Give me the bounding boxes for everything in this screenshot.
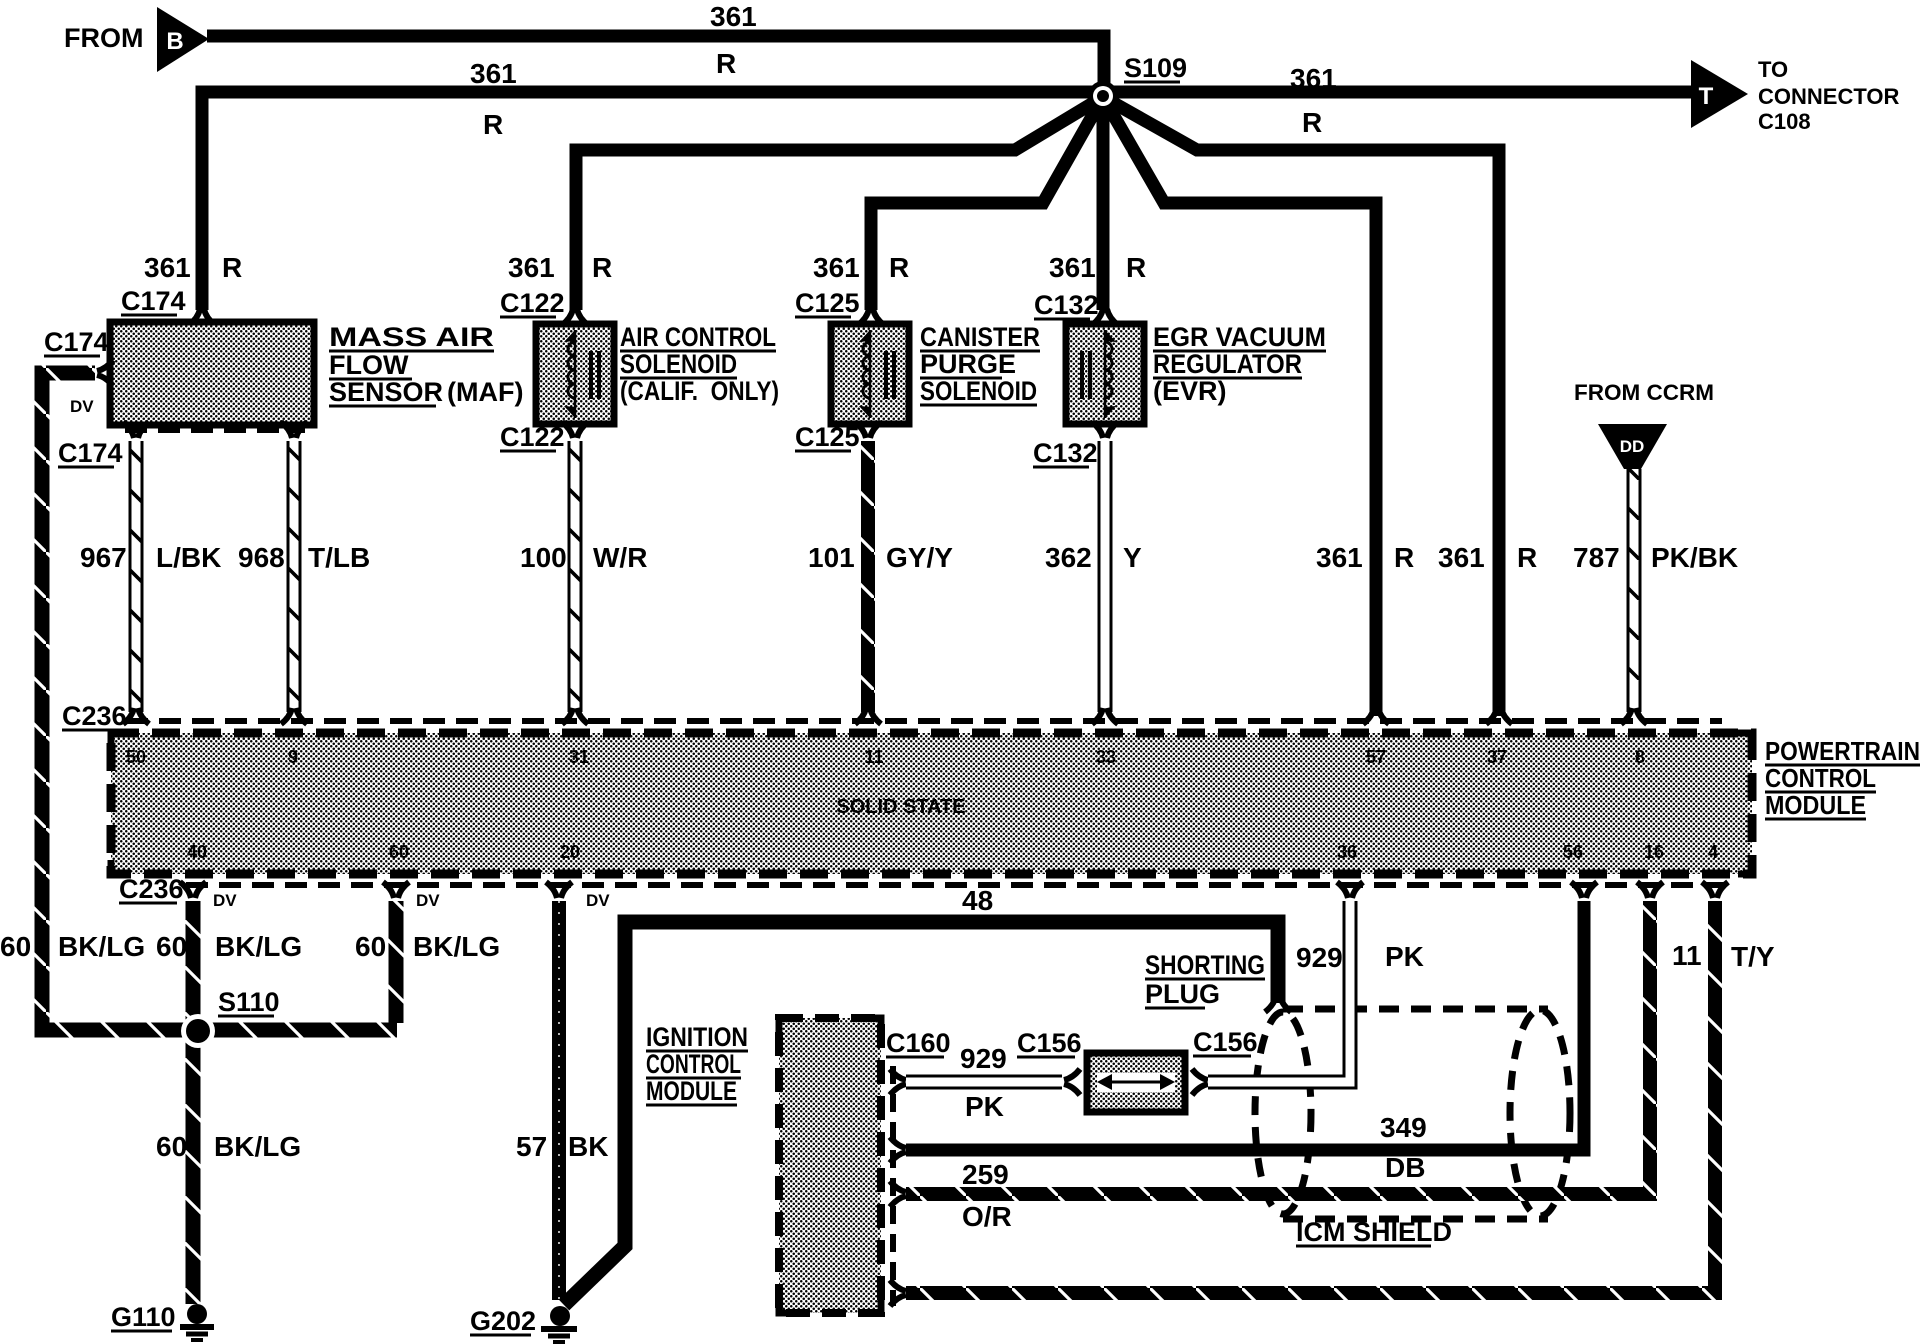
label R (pin 37 wire)	[1517, 542, 1537, 573]
label IGNITION CONTROL MODULE	[646, 1022, 748, 1106]
air control solenoid box C122	[536, 324, 614, 424]
label SHORTING PLUG	[1145, 950, 1265, 1009]
wire 57 BK (pin 20 to G202)	[552, 901, 566, 1300]
label 929 (C160 wire)	[960, 1043, 1007, 1074]
svg-text:SOLID STATE: SOLID STATE	[836, 796, 965, 818]
svg-text:CONNECTOR: CONNECTOR	[1758, 84, 1899, 109]
svg-text:R: R	[1126, 252, 1146, 283]
svg-text:CONTROL: CONTROL	[1765, 763, 1876, 793]
svg-text:R: R	[483, 109, 503, 140]
connector C174 pin (361 wire at MAF top)	[189, 309, 215, 325]
svg-text:T: T	[1699, 83, 1714, 110]
label C236 (top, left)	[62, 701, 127, 731]
wire 362 Y	[1098, 441, 1113, 712]
wire 361 R branch to PCM pin 57	[1103, 97, 1376, 716]
label 57	[516, 1131, 547, 1162]
svg-text:929: 929	[960, 1043, 1007, 1074]
svg-text:57: 57	[516, 1131, 547, 1162]
svg-text:BK/LG: BK/LG	[215, 931, 302, 962]
label R (right of S109)	[1302, 107, 1322, 138]
label 968	[238, 542, 285, 573]
label 361 (C132 drop)	[1049, 252, 1096, 283]
label T/Y	[1731, 941, 1775, 972]
label 100	[520, 542, 567, 573]
svg-text:EGR VACUUM: EGR VACUUM	[1153, 322, 1326, 352]
connector C236 pin (wire 929 top)	[1337, 882, 1363, 898]
svg-text:361: 361	[710, 1, 757, 32]
svg-text:R: R	[889, 252, 909, 283]
wire DV from MAF to S110	[42, 373, 397, 1030]
svg-text:DB: DB	[1385, 1152, 1425, 1183]
svg-text:16: 16	[1644, 842, 1664, 862]
label G202	[470, 1306, 536, 1336]
svg-text:AIR CONTROL: AIR CONTROL	[620, 322, 776, 352]
svg-text:C122: C122	[500, 288, 565, 318]
svg-text:37: 37	[1487, 747, 1507, 767]
connector C174 pin (DV wire at MAF left)	[97, 360, 113, 386]
label BK/LG (pin 60 wire)	[413, 931, 500, 962]
svg-text:B: B	[166, 28, 183, 55]
connector C125 pin (wire 101 top)	[855, 422, 881, 438]
svg-text:60: 60	[156, 931, 187, 962]
label PK (C160 wire)	[965, 1091, 1004, 1122]
svg-text:57: 57	[1366, 747, 1386, 767]
svg-text:361: 361	[1049, 252, 1096, 283]
label MASS AIR FLOW SENSOR (MAF)	[329, 322, 523, 407]
connector C236 pin (wire 349 top)	[1571, 882, 1597, 898]
label DV (pin 40 wire)	[213, 891, 237, 910]
label R (C125 drop)	[889, 252, 909, 283]
connector C236 pin (wire 100 bottom)	[562, 708, 588, 724]
label TO CONNECTOR C108	[1758, 57, 1899, 134]
connector C236 pin (lower wire 1)	[180, 882, 206, 898]
label 361 (pin 57 wire)	[1316, 542, 1363, 573]
svg-text:MODULE: MODULE	[1765, 790, 1866, 820]
label FROM CCRM	[1574, 380, 1714, 405]
MAF sensor box	[110, 322, 314, 425]
label 349	[1380, 1112, 1427, 1143]
svg-text:101: 101	[808, 542, 855, 573]
svg-text:W/R: W/R	[593, 542, 647, 573]
svg-text:361: 361	[1438, 542, 1485, 573]
label C132 (bottom connector)	[1033, 438, 1098, 468]
connector C156 pin (right)	[1192, 1069, 1208, 1095]
svg-text:C156: C156	[1017, 1028, 1082, 1058]
label EGR VACUUM REGULATOR (EVR)	[1153, 322, 1326, 406]
svg-text:40: 40	[187, 842, 207, 862]
label BK/LG (left wire)	[58, 931, 145, 962]
label PK/BK	[1651, 542, 1738, 573]
svg-text:PURGE: PURGE	[920, 349, 1016, 379]
svg-text:967: 967	[80, 542, 127, 573]
svg-text:DV: DV	[586, 891, 610, 910]
splice S110	[181, 1014, 215, 1048]
svg-text:GY/Y: GY/Y	[886, 542, 953, 573]
label C125 (top connector)	[795, 288, 860, 318]
label C122 (bottom connector)	[500, 422, 565, 452]
svg-text:(CALIF. ONLY): (CALIF. ONLY)	[620, 376, 779, 406]
wire 929 PK (C160 to C156)	[906, 1075, 1062, 1090]
label C174 (bottom connector)	[58, 438, 123, 468]
svg-text:BK/LG: BK/LG	[413, 931, 500, 962]
svg-text:R: R	[1394, 542, 1414, 573]
connector C236 pin (lower wire 2)	[383, 882, 409, 898]
label 967	[80, 542, 127, 573]
label BK/LG (G110 wire)	[214, 1131, 301, 1162]
label C174 (left connector)	[44, 327, 109, 357]
connector C132 pin (361 wire top)	[1092, 309, 1118, 325]
connector C174 pin (wire 967 top)	[123, 422, 149, 438]
label R (pin 57 wire)	[1394, 542, 1414, 573]
svg-text:C125: C125	[795, 422, 860, 452]
label PK (pin 36 wire)	[1385, 941, 1424, 972]
connector C122 pin (wire 100 top)	[562, 422, 588, 438]
label DV (MAF left wire)	[70, 397, 94, 416]
connector C236 pin (wire 259 top)	[1637, 882, 1663, 898]
canister purge solenoid box C125	[831, 324, 909, 424]
label 11	[1672, 940, 1702, 971]
svg-text:50: 50	[126, 747, 146, 767]
label C125 (bottom connector)	[795, 422, 860, 452]
connector C236 pin (lower wire 3)	[546, 882, 572, 898]
arrow T (to connector C108)	[1691, 60, 1748, 128]
svg-text:S110: S110	[218, 987, 280, 1017]
wire 361 R branch to C132	[1097, 97, 1110, 310]
svg-text:C236: C236	[119, 874, 184, 904]
svg-text:O/R: O/R	[962, 1201, 1012, 1232]
svg-text:C108: C108	[1758, 109, 1811, 134]
wire 967 L/BK	[129, 441, 144, 712]
label R (C122 drop)	[592, 252, 612, 283]
svg-text:T/Y: T/Y	[1731, 941, 1775, 972]
ICM shield dashed cylinder	[1255, 1009, 1570, 1219]
ground G110	[180, 1304, 214, 1340]
svg-text:BK: BK	[568, 1131, 608, 1162]
label 60 (G110 wire)	[156, 1131, 187, 1162]
svg-text:MASS AIR: MASS AIR	[329, 322, 494, 352]
svg-text:361: 361	[1316, 542, 1363, 573]
svg-text:ICM SHIELD: ICM SHIELD	[1296, 1217, 1452, 1247]
svg-text:9: 9	[288, 747, 298, 767]
svg-text:349: 349	[1380, 1112, 1427, 1143]
svg-text:BK/LG: BK/LG	[58, 931, 145, 962]
svg-text:R: R	[222, 252, 242, 283]
ground G202	[541, 1306, 577, 1342]
svg-text:R: R	[716, 48, 736, 79]
connector C174 line under MAF	[125, 427, 305, 433]
EGR vacuum regulator box C132	[1066, 324, 1144, 424]
svg-text:C174: C174	[58, 438, 123, 468]
svg-text:929: 929	[1296, 942, 1343, 973]
svg-text:FROM CCRM: FROM CCRM	[1574, 380, 1714, 405]
connector C160 pin (wire 259)	[890, 1181, 906, 1207]
ignition control module box	[779, 1018, 881, 1313]
svg-text:DV: DV	[213, 891, 237, 910]
label C122 (top connector)	[500, 288, 565, 318]
label 60 (left wire)	[0, 931, 31, 962]
svg-text:20: 20	[560, 842, 580, 862]
svg-text:R: R	[592, 252, 612, 283]
label C236 (bottom, left)	[119, 874, 184, 904]
label GY/Y	[886, 542, 953, 573]
svg-text:48: 48	[962, 885, 993, 916]
svg-text:31: 31	[569, 747, 589, 767]
wire 361 R main (C174 to connector C108)	[202, 92, 1694, 310]
svg-text:G110: G110	[111, 1302, 176, 1332]
splice S109	[1088, 81, 1118, 111]
label CANISTER PURGE SOLENOID	[920, 322, 1040, 406]
svg-text:POWERTRAIN: POWERTRAIN	[1765, 736, 1920, 766]
svg-text:4: 4	[1708, 842, 1718, 862]
svg-text:PLUG: PLUG	[1145, 979, 1220, 1009]
wire 361 R branch to PCM pin 37	[1103, 97, 1499, 716]
label BK	[568, 1131, 608, 1162]
svg-text:L/BK: L/BK	[156, 542, 221, 573]
label R (C132 drop)	[1126, 252, 1146, 283]
label 361 (C125 drop)	[813, 252, 860, 283]
wire 11 T/Y (ICM to PCM pin 4)	[906, 901, 1715, 1293]
label C156 (right)	[1193, 1027, 1258, 1057]
svg-text:PK: PK	[1385, 941, 1424, 972]
svg-text:(EVR): (EVR)	[1153, 376, 1227, 406]
label 60 (pin 40 wire)	[156, 931, 187, 962]
wire 100 W/R	[568, 441, 583, 712]
label 101	[808, 542, 855, 573]
svg-text:36: 36	[1337, 842, 1357, 862]
label 361 (C174 drop)	[144, 252, 191, 283]
label 60 (pin 60 wire)	[355, 931, 386, 962]
label C174 (top connector)	[121, 286, 186, 316]
svg-text:R: R	[1302, 107, 1322, 138]
wire 361 R branch to C122	[576, 97, 1103, 310]
svg-text:DV: DV	[416, 891, 440, 910]
connector C236 pin (wire 101 bottom)	[855, 708, 881, 724]
label C156 (left)	[1017, 1028, 1082, 1058]
svg-text:G202: G202	[470, 1306, 536, 1336]
connector C156 pin (left)	[1064, 1069, 1080, 1095]
svg-text:DV: DV	[70, 397, 94, 416]
connector C236 pin (wire 967 bottom)	[123, 708, 149, 724]
svg-text:C174: C174	[121, 286, 186, 316]
svg-text:C122: C122	[500, 422, 565, 452]
arrow B (from connector B)	[157, 7, 209, 72]
svg-text:361: 361	[508, 252, 555, 283]
svg-text:CANISTER: CANISTER	[920, 322, 1040, 352]
label Y	[1123, 542, 1142, 573]
shorting plug	[1087, 1053, 1185, 1112]
connector C160 pin (wire 11)	[890, 1280, 906, 1306]
svg-text:C125: C125	[795, 288, 860, 318]
connector C236 pin (wire 968 bottom)	[281, 708, 307, 724]
connector C236 pin (wire 11 top)	[1702, 882, 1728, 898]
label 361 (C122 drop)	[508, 252, 555, 283]
svg-text:56: 56	[1563, 842, 1583, 862]
wire 259 O/R (ICM to PCM pin 16)	[906, 901, 1650, 1194]
svg-text:11: 11	[1672, 940, 1702, 971]
connector C132 pin (wire 362 top)	[1092, 422, 1118, 438]
svg-text:60: 60	[389, 842, 409, 862]
svg-text:REGULATOR: REGULATOR	[1153, 349, 1302, 379]
svg-text:60: 60	[156, 1131, 187, 1162]
label 361 (pin 37 wire)	[1438, 542, 1485, 573]
svg-text:C132: C132	[1033, 438, 1098, 468]
label 361 (right of S109)	[1290, 63, 1337, 94]
connector C160 pin (wire 349)	[890, 1137, 906, 1163]
svg-text:PK: PK	[965, 1091, 1004, 1122]
connector C160 line	[890, 1066, 896, 1306]
label 929 (pin 36 wire)	[1296, 942, 1343, 973]
wire 101 GY/Y	[861, 441, 875, 712]
label BK/LG (pin 40 wire)	[215, 931, 302, 962]
arrow DD (from CCRM)	[1598, 424, 1667, 469]
label DV (pin 60 wire)	[416, 891, 440, 910]
svg-text:C132: C132	[1034, 290, 1099, 320]
svg-text:S109: S109	[1124, 53, 1187, 83]
wire 968 T/LB	[287, 441, 302, 712]
svg-text:361: 361	[144, 252, 191, 283]
svg-text:SOLENOID: SOLENOID	[620, 349, 737, 379]
wire 60 BK/LG (pin 60 to S110)	[389, 901, 404, 1023]
svg-text:33: 33	[1096, 747, 1116, 767]
label 361 (second line)	[470, 58, 517, 89]
label POWERTRAIN CONTROL MODULE	[1765, 736, 1920, 820]
svg-text:BK/LG: BK/LG	[214, 1131, 301, 1162]
label ICM SHIELD	[1296, 1217, 1452, 1247]
label C160	[886, 1028, 951, 1058]
wire 787 PK/BK	[1627, 469, 1642, 712]
svg-text:259: 259	[962, 1159, 1009, 1190]
svg-text:(MAF): (MAF)	[447, 377, 523, 407]
connector C236 line (top)	[126, 718, 1722, 724]
svg-text:787: 787	[1573, 542, 1620, 573]
wire 60 BK/LG (pin 40 to S110 to G110)	[186, 901, 201, 1304]
svg-text:60: 60	[0, 931, 31, 962]
connector C174 pin (wire 968 top)	[281, 422, 307, 438]
connector C236 pin (361 wire pin 57)	[1363, 708, 1389, 724]
svg-text:362: 362	[1045, 542, 1092, 573]
wire 361 R from B to S109	[207, 36, 1104, 88]
label C132 (top connector)	[1034, 290, 1099, 320]
connector C236 pin (wire 362 bottom)	[1092, 708, 1118, 724]
label 48	[962, 885, 993, 916]
label R (top line)	[716, 48, 736, 79]
svg-text:SHORTING: SHORTING	[1145, 950, 1265, 980]
svg-text:361: 361	[813, 252, 860, 283]
svg-text:C236: C236	[62, 701, 127, 731]
label S110	[218, 987, 280, 1017]
svg-text:PK/BK: PK/BK	[1651, 542, 1738, 573]
connector C236 pin (wire 787 bottom)	[1621, 708, 1647, 724]
label R (second line)	[483, 109, 503, 140]
svg-text:C160: C160	[886, 1028, 951, 1058]
svg-text:IGNITION: IGNITION	[646, 1022, 748, 1052]
svg-text:MODULE: MODULE	[646, 1076, 737, 1106]
label T/LB	[308, 542, 370, 573]
svg-text:SENSOR: SENSOR	[329, 377, 443, 407]
svg-text:Y: Y	[1123, 542, 1142, 573]
svg-text:361: 361	[1290, 63, 1337, 94]
shield drain connection (wire 48 at shield)	[1265, 996, 1291, 1012]
wire 929 PK (C156 to PCM pin 36)	[1208, 901, 1350, 1082]
wire 361 R branch to C125	[871, 97, 1103, 310]
label S109	[1124, 53, 1187, 83]
label W/R	[593, 542, 647, 573]
svg-text:TO: TO	[1758, 57, 1788, 82]
svg-text:100: 100	[520, 542, 567, 573]
label 361 (top line)	[710, 1, 757, 32]
wire 48 (shield drain to G202)	[564, 922, 1278, 1305]
label 362	[1045, 542, 1092, 573]
label AIR CONTROL SOLENOID (CALIF. ONLY)	[620, 322, 779, 406]
svg-text:C156: C156	[1193, 1027, 1258, 1057]
label 787	[1573, 542, 1620, 573]
label R (C174 drop)	[222, 252, 242, 283]
label DV (pin 20 wire)	[586, 891, 610, 910]
connector C160 pin (wire 929)	[890, 1069, 906, 1095]
connector C236 pin (361 wire pin 37)	[1486, 708, 1512, 724]
wire 349 DB (ICM to PCM pin 56)	[906, 901, 1584, 1150]
svg-text:T/LB: T/LB	[308, 542, 370, 573]
powertrain control module box	[111, 733, 1752, 874]
connector C122 pin (361 wire top)	[562, 309, 588, 325]
connector C125 pin (361 wire top)	[858, 309, 884, 325]
label O/R	[962, 1201, 1012, 1232]
svg-text:60: 60	[355, 931, 386, 962]
label 259	[962, 1159, 1009, 1190]
label FROM	[64, 23, 143, 53]
svg-text:361: 361	[470, 58, 517, 89]
svg-text:CONTROL: CONTROL	[646, 1049, 741, 1079]
svg-text:R: R	[1517, 542, 1537, 573]
svg-text:968: 968	[238, 542, 285, 573]
label DB	[1385, 1152, 1425, 1183]
svg-text:8: 8	[1635, 747, 1645, 767]
label L/BK	[156, 542, 221, 573]
svg-text:FROM: FROM	[64, 23, 143, 53]
svg-text:DD: DD	[1620, 437, 1645, 456]
svg-text:SOLENOID: SOLENOID	[920, 376, 1037, 406]
svg-text:11: 11	[864, 747, 883, 767]
label G110	[111, 1302, 176, 1332]
svg-text:FLOW: FLOW	[329, 350, 409, 380]
connector C236 line (bottom)	[186, 882, 1730, 888]
svg-text:C174: C174	[44, 327, 109, 357]
